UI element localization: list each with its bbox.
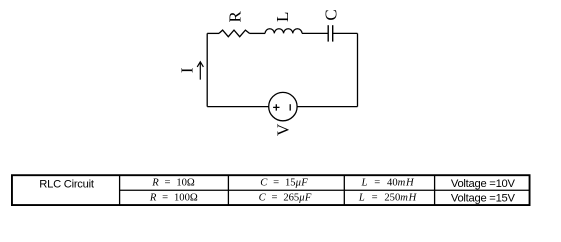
label C [321, 9, 340, 20]
label R [226, 11, 245, 23]
resistor R [219, 30, 250, 37]
table grid [12, 175, 530, 205]
wire between R and L [250, 32, 266, 34]
svg-text:L = 250mH: L = 250mH [358, 193, 418, 204]
svg-text:Voltage =15V: Voltage =15V [451, 193, 516, 205]
svg-text:Voltage =10V: Voltage =10V [451, 178, 516, 190]
svg-text:RLC Circuit: RLC Circuit [39, 179, 95, 191]
wire left vertical [206, 33, 208, 106]
label L [273, 12, 292, 22]
svg-text:R = 10Ω: R = 10Ω [151, 178, 195, 189]
wire C to top-right corner [333, 32, 358, 34]
svg-text:R = 100Ω: R = 100Ω [149, 193, 198, 204]
voltage source V [269, 92, 297, 120]
wire bottom-right segment [297, 106, 357, 108]
svg-text:L = 40mH: L = 40mH [360, 178, 415, 189]
label I [178, 67, 197, 73]
wire right vertical [357, 33, 359, 106]
capacitor C plate right [332, 25, 334, 41]
source plus terminal [273, 104, 279, 110]
current arrow I [197, 62, 203, 80]
source minus terminal [289, 104, 291, 110]
svg-text:I: I [178, 67, 197, 73]
svg-text:C = 265μF: C = 265μF [259, 193, 312, 204]
wire bottom-left segment [207, 106, 269, 108]
svg-text:C: C [321, 9, 340, 20]
svg-text:R: R [226, 11, 245, 23]
inductor L [265, 29, 302, 34]
wire top-left segment [207, 32, 219, 34]
svg-text:L: L [273, 12, 292, 22]
capacitor C plate left [327, 25, 329, 41]
wire between L and C [302, 32, 328, 34]
svg-text:C = 15μF: C = 15μF [260, 178, 308, 189]
svg-text:V: V [273, 123, 292, 136]
label V [273, 123, 292, 136]
